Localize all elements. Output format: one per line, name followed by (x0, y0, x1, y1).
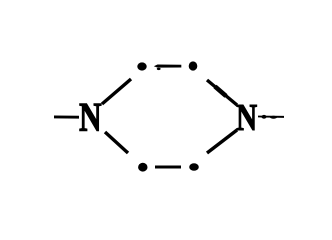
scan lumps on right methyl dash (261, 115, 266, 119)
atom N1 (left nitrogen) (80, 104, 102, 131)
electron dot bottom-left (138, 163, 147, 172)
bond: right methyl dash (258, 116, 284, 118)
bond: upper-right ring bond (207, 80, 237, 105)
electron dot top-left (137, 62, 146, 70)
bond: bottom partial dash (155, 166, 181, 169)
electron dot bottom-right (189, 163, 199, 170)
bond: lower-right ring bond (207, 130, 237, 153)
bond: lower-left ring bond (105, 132, 128, 153)
atom N2 (right nitrogen) (237, 105, 257, 130)
electron dot top-right (189, 61, 198, 70)
bond: left methyl dash (54, 116, 79, 119)
scan thickening middle of upper-right bond (215, 87, 226, 97)
bond: upper-left ring bond (102, 79, 131, 104)
bond: top partial dash (154, 65, 182, 68)
scan speck under top dash (157, 68, 161, 70)
